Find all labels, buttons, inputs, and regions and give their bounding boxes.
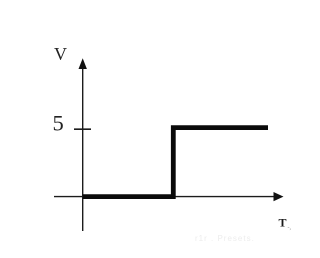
x-axis (horizontal axis line) <box>54 196 276 198</box>
tick mark at 5 <box>74 128 91 130</box>
svg-text:5: 5 <box>53 111 64 136</box>
step waveform (0V then 5V) <box>83 128 268 197</box>
svg-text:T: T <box>279 216 287 230</box>
svg-text:V: V <box>54 44 67 64</box>
y-axis (vertical axis line) <box>82 66 84 231</box>
x-axis arrowhead <box>274 192 284 201</box>
y-axis arrowhead <box>79 58 87 69</box>
svg-text:-,: -, <box>288 225 292 231</box>
svg-text:r1r . Presets.: r1r . Presets. <box>195 234 255 243</box>
